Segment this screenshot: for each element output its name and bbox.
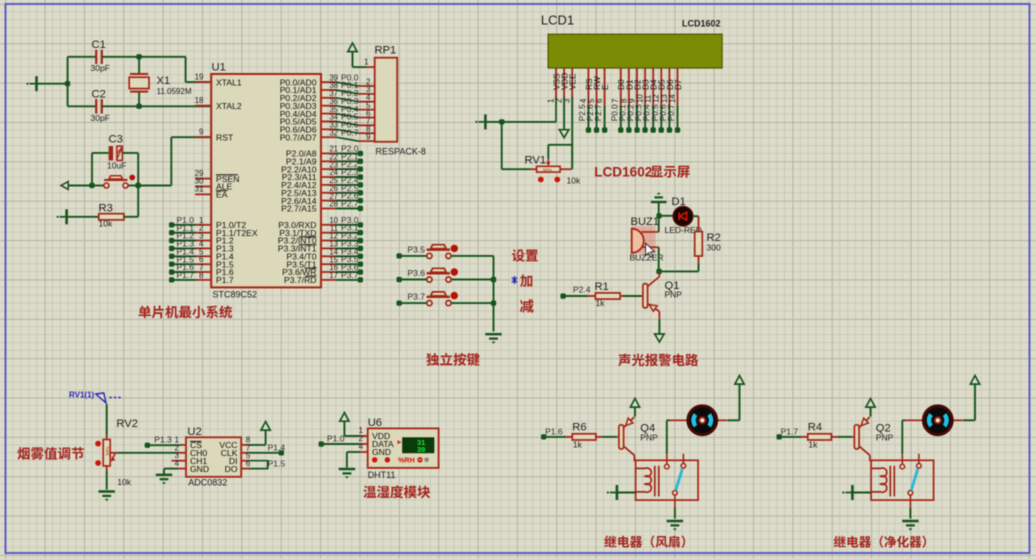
wire	[485, 121, 501, 123]
net P1.1	[169, 223, 211, 235]
label fan	[604, 535, 685, 547]
svg-text:RV1: RV1	[525, 155, 547, 167]
svg-text:C2: C2	[92, 89, 106, 101]
power arrow	[866, 399, 875, 408]
motor	[905, 406, 963, 435]
wire VEE to wiper	[548, 144, 572, 146]
U1 pin 19 XTAL1 stub	[195, 81, 211, 83]
wire	[563, 295, 588, 297]
potentiometer RV1	[537, 159, 561, 172]
wire	[634, 408, 636, 417]
wire	[139, 56, 186, 58]
svg-text:P2.4: P2.4	[573, 284, 591, 294]
svg-text:RST: RST	[216, 132, 234, 142]
relay coil+contacts	[871, 454, 934, 508]
net P1.4	[249, 452, 281, 454]
svg-text:28: 28	[329, 200, 338, 209]
U1 pin 29 PSEN stub	[195, 178, 211, 180]
power arrow	[630, 399, 639, 408]
net P0.7 wire	[321, 127, 375, 141]
svg-text:P1.0: P1.0	[327, 433, 345, 443]
wire	[901, 420, 903, 453]
svg-text:19: 19	[195, 72, 204, 81]
wire	[92, 185, 104, 187]
wire	[91, 153, 93, 186]
wire	[67, 57, 69, 107]
svg-text:DO: DO	[225, 464, 238, 474]
wire	[139, 105, 211, 107]
svg-text:300: 300	[707, 243, 721, 253]
RV2 bottom lead	[106, 466, 108, 471]
svg-text:P1.6: P1.6	[545, 427, 563, 437]
net P2.0	[321, 143, 363, 156]
transistor Q1	[641, 272, 659, 320]
node Q1-collector-net	[656, 269, 661, 274]
wire	[92, 152, 109, 154]
wire	[602, 436, 617, 438]
svg-text:XTAL2: XTAL2	[216, 101, 242, 111]
LED D1	[673, 207, 692, 226]
wire	[658, 319, 660, 333]
svg-text:C1: C1	[92, 39, 106, 51]
LCD pin 5 RW net P2.6	[586, 68, 602, 133]
node X1-top	[136, 54, 141, 59]
buzzer BUZ1	[632, 229, 659, 253]
svg-text:9: 9	[366, 132, 371, 141]
wire	[147, 444, 178, 446]
U2 pin 7 CLK	[241, 452, 249, 454]
svg-text:17: 17	[329, 271, 338, 280]
wire	[171, 136, 211, 138]
svg-text:39: 39	[417, 445, 425, 454]
wire	[451, 279, 493, 281]
label plus	[520, 275, 532, 287]
net P1.7	[777, 434, 782, 439]
net P1.6	[169, 262, 211, 274]
svg-text:PNP: PNP	[665, 290, 683, 300]
svg-text:XTAL1: XTAL1	[216, 77, 242, 87]
net P1.2	[169, 231, 211, 244]
buzzer BUZ1 highlight	[631, 226, 656, 253]
wire	[352, 52, 354, 67]
U2 pin 3 stub	[172, 460, 186, 462]
svg-text:1k: 1k	[808, 440, 818, 450]
net P0.6 wire	[321, 120, 375, 134]
wire	[963, 419, 975, 421]
net P0.5 wire	[321, 112, 375, 126]
LCD pin 4 RS net P2.5	[578, 68, 594, 133]
blue cursor mark	[512, 276, 517, 284]
net P3.7	[321, 270, 363, 283]
relay coil+contacts	[636, 454, 699, 508]
label minus	[520, 299, 534, 313]
wire	[693, 215, 699, 217]
svg-text:6: 6	[595, 99, 604, 103]
resistor R3	[99, 214, 124, 220]
svg-text:8: 8	[199, 271, 204, 280]
wire	[186, 81, 212, 83]
svg-text:VEE: VEE	[569, 73, 578, 90]
svg-text:ADC0832: ADC0832	[188, 478, 227, 488]
net P3.2	[321, 231, 363, 244]
net P0.1 wire	[321, 80, 375, 94]
VDD down arrow	[563, 97, 565, 130]
label temp-humidity module	[363, 485, 430, 498]
wire	[67, 216, 99, 218]
ground	[26, 76, 36, 91]
RV1 indicator dots	[538, 177, 560, 183]
U6 indicator dots	[372, 457, 429, 462]
net P1.7	[169, 270, 211, 282]
U6 pin 4 stub	[360, 451, 368, 453]
U1 left pin labels	[216, 77, 258, 285]
label smoke adjust	[17, 447, 84, 460]
LCD pin 14 D7 net P0.7	[667, 68, 683, 133]
U2 CS overbar	[190, 440, 202, 442]
svg-text:1: 1	[364, 57, 369, 66]
svg-text:10k: 10k	[117, 477, 131, 487]
svg-text:4: 4	[359, 442, 364, 451]
svg-text:U1: U1	[212, 62, 226, 74]
svg-text:U6: U6	[368, 417, 382, 429]
net P2.7	[321, 199, 363, 212]
U1 pin 18 XTAL2 stub	[195, 105, 211, 107]
svg-text:10uF: 10uF	[107, 161, 126, 171]
ground	[902, 521, 918, 531]
U2 pin 8 VCC	[241, 444, 249, 446]
svg-text:D1: D1	[672, 196, 686, 208]
wire	[249, 444, 266, 446]
svg-text:RESPACK-8: RESPACK-8	[376, 147, 426, 157]
ground	[156, 475, 172, 485]
svg-text:PNP: PNP	[876, 433, 894, 443]
node reset-left	[89, 183, 94, 188]
wire	[347, 451, 360, 453]
node reset-right	[136, 183, 141, 188]
svg-text:32: 32	[329, 128, 338, 137]
label independent keys	[426, 353, 479, 366]
svg-text:10k: 10k	[99, 219, 113, 229]
capacitor C3	[109, 146, 123, 160]
pin name overbars	[216, 175, 317, 276]
svg-text:STC89C52: STC89C52	[213, 290, 258, 300]
net P3.3	[321, 238, 363, 251]
svg-text:P2.7: P2.7	[341, 199, 359, 209]
svg-text:RV1(1): RV1(1)	[69, 391, 95, 400]
wire	[852, 492, 871, 494]
LCD pin 1 VSS	[546, 68, 561, 103]
svg-text:RP1: RP1	[375, 45, 397, 57]
svg-text:P2.7: P2.7	[594, 104, 603, 121]
svg-text:U2: U2	[187, 426, 201, 438]
wire	[102, 105, 139, 107]
wire	[544, 436, 566, 438]
svg-text:P1.5: P1.5	[268, 458, 286, 468]
net P1.6	[541, 434, 546, 439]
U2 pin 6 DO	[241, 468, 249, 470]
LCD pin 12 D5 net P0.5	[651, 68, 667, 133]
svg-text:P1.7: P1.7	[177, 270, 195, 280]
net P3.6	[321, 262, 363, 275]
wire	[501, 122, 503, 169]
svg-text:R1: R1	[595, 281, 609, 293]
U1 pin 31 EA stub	[195, 193, 211, 195]
mouse cursor	[646, 243, 655, 257]
svg-text:11.0592M: 11.0592M	[157, 87, 192, 96]
wire	[837, 436, 852, 438]
push button P3.7	[427, 292, 458, 306]
svg-text:GND: GND	[190, 464, 209, 474]
net P2.4	[321, 175, 363, 188]
power arrow	[340, 413, 349, 422]
wire	[164, 468, 178, 470]
net P3.1	[321, 223, 363, 236]
wire	[122, 152, 138, 154]
wire	[68, 56, 97, 58]
net P3.7	[397, 292, 428, 306]
svg-text:C3: C3	[109, 134, 123, 146]
svg-text:P1.7: P1.7	[781, 427, 799, 437]
svg-text:9: 9	[199, 127, 204, 136]
net P3.6	[397, 268, 428, 282]
power arrow	[970, 376, 979, 385]
net P1.3	[169, 239, 211, 252]
node X1-bottom	[136, 104, 141, 109]
LCD pin 13 D6 net P0.6	[659, 68, 675, 133]
wire	[68, 105, 97, 107]
net P2.1	[321, 151, 363, 164]
wire	[124, 216, 138, 218]
ground	[485, 334, 501, 344]
net P0.3 wire	[321, 96, 375, 110]
net P2.5	[321, 183, 363, 196]
wire	[321, 443, 360, 445]
transistor Q4	[617, 417, 635, 461]
svg-text:P3.7: P3.7	[341, 270, 359, 280]
wire	[128, 185, 138, 187]
LCD1 display body	[548, 34, 722, 68]
U1 right pin labels	[278, 77, 317, 285]
resistor R1	[588, 295, 596, 297]
svg-text:%RH: %RH	[398, 456, 415, 465]
net P2.3	[321, 167, 363, 180]
ground	[667, 521, 683, 531]
svg-text:P3.7: P3.7	[408, 292, 426, 302]
net P1.4	[169, 247, 211, 259]
svg-text:R6: R6	[572, 422, 586, 434]
svg-text:LCD1602: LCD1602	[594, 165, 653, 180]
wire	[451, 255, 493, 257]
U2 pin 2 stub	[178, 452, 186, 454]
svg-text:31: 31	[195, 185, 204, 194]
wire	[185, 57, 187, 82]
svg-text:P3.5: P3.5	[408, 244, 426, 254]
U1 pin 9 RST stub	[195, 136, 211, 138]
reset input arrow	[61, 182, 68, 190]
wire	[138, 185, 171, 187]
net P1.5 wire	[249, 461, 268, 469]
wire	[138, 92, 140, 107]
svg-text:10k: 10k	[567, 176, 581, 186]
net P2.4	[560, 293, 565, 298]
net P1.0	[319, 441, 324, 446]
svg-text:P1.7: P1.7	[216, 275, 234, 285]
svg-text:P1.4: P1.4	[268, 443, 286, 453]
LCD pin 7 D0 net P0.0	[610, 68, 626, 133]
net P1.0	[169, 215, 211, 228]
U6 pin 2 stub	[360, 443, 368, 445]
svg-text:LCD1: LCD1	[541, 13, 574, 28]
LCD pin 11 D4 net P0.4	[643, 68, 659, 133]
ground	[475, 114, 485, 129]
svg-text:LCD1602: LCD1602	[682, 18, 721, 28]
U2 pin labels	[190, 440, 238, 474]
svg-text:X1: X1	[157, 75, 171, 87]
U2 pin 4 stub	[178, 468, 186, 470]
svg-text:R4: R4	[808, 422, 822, 434]
LCD pin 6 E net P2.7	[594, 68, 610, 133]
net P3.0	[321, 215, 363, 228]
node buzzer-top	[656, 213, 661, 218]
wire	[658, 202, 660, 216]
capacitor C2	[96, 99, 102, 113]
power arrow	[735, 376, 744, 385]
svg-text:BUZ1: BUZ1	[631, 216, 660, 228]
ground	[57, 209, 67, 224]
wire	[909, 508, 911, 519]
LCD pin 10 D3 net P0.3	[635, 68, 651, 133]
power +5V arrow	[348, 43, 357, 52]
push button P3.6	[427, 268, 458, 282]
resistor pack RP1	[375, 58, 398, 142]
wire	[353, 66, 367, 68]
label MCU minimal system	[139, 305, 232, 318]
ground	[842, 485, 852, 500]
svg-text:DHT11: DHT11	[368, 470, 396, 480]
motor	[669, 406, 727, 435]
svg-text:R3: R3	[99, 203, 113, 215]
transistor Q2	[852, 417, 870, 461]
U6 display	[398, 438, 434, 455]
U1 pin 30 ALE stub	[195, 186, 211, 188]
wire	[102, 56, 139, 58]
svg-text:RV2: RV2	[116, 418, 138, 430]
power arrow	[261, 422, 270, 431]
U6 pin 1 stub	[360, 435, 368, 437]
wire VSS	[502, 121, 556, 123]
IC U6 DHT11 body	[368, 428, 439, 468]
resistor R2	[698, 216, 700, 231]
net P1.5	[169, 254, 211, 266]
svg-text:P0.7: P0.7	[667, 104, 676, 121]
wire	[659, 215, 673, 217]
wire	[658, 216, 660, 232]
net P1.3	[145, 443, 150, 448]
wire	[658, 247, 660, 271]
down arrow	[655, 334, 664, 342]
LCD pin 3 VEE	[563, 68, 578, 103]
svg-text:P2.7/A15: P2.7/A15	[281, 204, 317, 214]
resistor R4	[802, 436, 808, 438]
wire	[779, 436, 801, 438]
wire	[451, 302, 493, 304]
U2 pin 5 DI	[241, 460, 249, 462]
wire wiper	[110, 452, 117, 454]
LCD pin 9 D2 net P0.2	[627, 68, 643, 133]
VEE wire	[571, 97, 573, 169]
wire	[106, 471, 108, 490]
ground	[339, 469, 355, 479]
svg-text:1k: 1k	[596, 298, 606, 308]
net P0.4 wire	[321, 104, 375, 118]
push button RESET	[104, 175, 135, 188]
wire buttons trunk	[493, 256, 495, 332]
crystal X1	[129, 74, 149, 92]
label purifier	[834, 536, 926, 548]
label set	[512, 249, 538, 262]
wire	[37, 83, 68, 85]
ground	[99, 492, 115, 502]
wire	[674, 508, 676, 519]
svg-text:4: 4	[175, 459, 180, 468]
svg-text:50%: 50%	[105, 446, 110, 455]
LCD pin 8 D1 net P0.1	[618, 68, 634, 133]
wire	[727, 419, 739, 421]
svg-text:P1.3: P1.3	[154, 435, 172, 445]
IC U1 STC89C52 body	[211, 74, 321, 287]
svg-text:30pF: 30pF	[91, 63, 110, 73]
resistor R6	[566, 436, 572, 438]
svg-text:P3.6: P3.6	[408, 268, 426, 278]
RV1 left lead	[530, 168, 537, 170]
node crystal-left	[65, 81, 70, 86]
node	[491, 277, 496, 282]
net P0.2 wire	[321, 88, 375, 102]
net P2.6	[321, 191, 363, 204]
wire	[138, 57, 140, 74]
svg-text:14: 14	[668, 94, 677, 103]
capacitor C1	[96, 50, 102, 64]
push button P3.5	[427, 245, 458, 259]
RP1 pin 1 stub	[367, 66, 375, 68]
wire	[343, 422, 345, 436]
net P3.5	[397, 244, 428, 258]
svg-text:GND: GND	[372, 447, 391, 457]
wire	[623, 295, 641, 297]
net P2.2	[321, 159, 363, 172]
svg-text:1k: 1k	[573, 440, 583, 450]
wire	[617, 492, 636, 494]
wire	[698, 264, 700, 272]
wire	[68, 185, 92, 187]
probe arrow	[96, 393, 106, 403]
LCD pin 2 VDD	[555, 68, 570, 103]
node VSS-gnd	[499, 119, 504, 124]
RV1 right lead	[560, 168, 571, 170]
wire	[106, 404, 108, 434]
net P3.4	[321, 246, 363, 259]
svg-text:D7: D7	[674, 79, 683, 90]
U2 pin 1 stub	[182, 444, 187, 446]
RV2 indicator dots	[95, 441, 101, 466]
svg-text:50%: 50%	[543, 167, 552, 172]
label alarm circuit	[618, 354, 698, 367]
svg-text:P0.7: P0.7	[341, 127, 359, 137]
svg-text:PNP: PNP	[640, 433, 658, 443]
potentiometer RV2	[106, 435, 108, 440]
wire	[666, 420, 668, 453]
svg-text:E: E	[601, 84, 610, 90]
